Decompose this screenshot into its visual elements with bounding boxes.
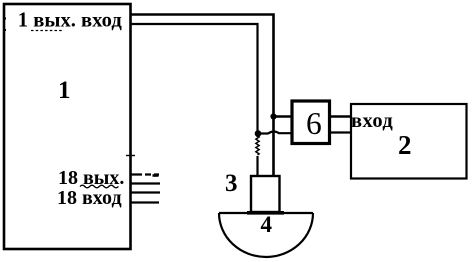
wavy underline artifact under вых.	[80, 185, 118, 188]
dotted underline artifact under вых.	[31, 30, 63, 32]
scan nub artifacts on left edge	[3, 19, 6, 31]
dome 4 semicircular bowl	[219, 213, 313, 257]
block 2 (receiver rectangle)	[351, 104, 467, 179]
svg-text:4: 4	[261, 212, 273, 237]
stub wire 18 вых b	[131, 182, 160, 184]
svg-text:6: 6	[306, 106, 322, 141]
svg-text:1: 1	[58, 77, 71, 104]
svg-text:3: 3	[225, 170, 238, 197]
stub tick on right edge of block 1	[126, 155, 135, 157]
wire: 1 вход, second run right then down (with wavy scan artifact) to block 3	[130, 24, 258, 175]
svg-text:1 вых. вход: 1 вых. вход	[18, 10, 123, 32]
svg-text:2: 2	[398, 130, 412, 160]
dome 4 chord line	[219, 212, 313, 214]
svg-text:18 вход: 18 вход	[57, 187, 122, 209]
block 3 (sensor body)	[251, 176, 280, 212]
block 6 (small square)	[292, 101, 330, 144]
stub wire 18 вых a (partly dashed)	[131, 173, 159, 175]
wire: block 6 upper output to block 2	[331, 115, 351, 117]
wire: 1 вых output, top run right then down to block 3	[130, 15, 274, 176]
junction node on outer vertical	[270, 113, 276, 119]
stub wire 18 вход b	[131, 201, 159, 203]
stub wire 18 вход a	[131, 191, 160, 193]
wavy scan artifact on inner vertical	[256, 136, 259, 155]
wire: tap to block 6 upper input	[274, 115, 292, 117]
svg-text:вход: вход	[351, 110, 393, 132]
junction node on inner vertical	[255, 130, 262, 137]
block 1 (unit 1 rectangle)	[4, 4, 131, 249]
wire: tap to block 6 lower input with hop over outer vertical	[258, 131, 291, 133]
wire: block 6 lower output to block 2	[331, 131, 351, 133]
thick base under block 3	[247, 211, 284, 215]
